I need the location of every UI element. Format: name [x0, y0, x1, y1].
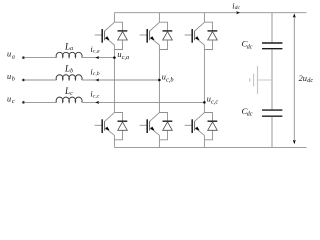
antiparallel diode of IGBT+diode upper switch leg c	[208, 31, 218, 40]
wire leg b top drop	[158, 13, 160, 23]
wire diode branch of IGBT+diode lower switch leg b	[159, 113, 167, 140]
node u_c,a	[113, 56, 116, 59]
wire top rail to C_dc upper	[271, 13, 273, 43]
wire diode branch of IGBT+diode upper switch leg b	[159, 22, 167, 49]
svg-text:u: u	[7, 72, 11, 81]
svg-text:c: c	[70, 91, 73, 97]
svg-text:u: u	[7, 94, 11, 103]
capacitor C_dc upper	[262, 43, 282, 49]
current arrow i_c,a	[95, 56, 99, 59]
svg-text:a: a	[70, 46, 73, 52]
wire L_c to node u_c,c	[82, 101, 205, 103]
svg-text:c,b: c,b	[93, 71, 100, 77]
IGBT of IGBT+diode upper switch leg b	[140, 22, 160, 45]
inductor L_a	[56, 52, 82, 57]
wire diode branch of IGBT+diode upper switch leg c	[204, 22, 212, 49]
wire leg b bottom drop	[158, 135, 160, 147]
voltage arrow 2u_dc line	[293, 17, 295, 142]
antiparallel diode of IGBT+diode lower switch leg b	[163, 121, 173, 130]
current arrow i_c,c	[95, 101, 99, 104]
wire leg a top drop	[113, 13, 115, 23]
node u_c,c	[203, 101, 206, 104]
svg-text:dc: dc	[247, 44, 253, 50]
svg-text:dc: dc	[307, 77, 313, 84]
current arrow i_dc	[236, 11, 240, 14]
svg-text:c,c: c,c	[211, 99, 218, 106]
wire L_b to node u_c,b	[82, 79, 160, 81]
svg-text:c,a: c,a	[122, 54, 130, 61]
antiparallel diode of IGBT+diode upper switch leg b	[163, 31, 173, 40]
IGBT of IGBT+diode lower switch leg a	[95, 113, 115, 136]
wire leg a bottom drop	[113, 135, 115, 147]
wire u_b to L_b	[24, 79, 57, 81]
source terminal u_b	[22, 79, 25, 82]
wire leg c midpoint vertical	[203, 45, 205, 113]
wire diode branch of IGBT+diode lower switch leg c	[204, 113, 212, 140]
wire u_c to L_c	[24, 101, 57, 103]
svg-text:b: b	[70, 69, 73, 75]
antiparallel diode of IGBT+diode lower switch leg c	[208, 121, 218, 130]
svg-text:c,b: c,b	[166, 76, 174, 83]
svg-text:u: u	[7, 50, 11, 59]
IGBT of IGBT+diode upper switch leg c	[185, 22, 205, 45]
voltage arrowhead up	[293, 13, 296, 17]
IGBT of IGBT+diode lower switch leg c	[185, 113, 205, 136]
bottom DC rail	[114, 146, 306, 148]
wire leg a midpoint vertical	[113, 45, 115, 113]
wire diode branch of IGBT+diode upper switch leg a	[114, 22, 122, 49]
svg-text:a: a	[12, 54, 15, 60]
svg-text:2u: 2u	[299, 74, 307, 83]
svg-text:c,a: c,a	[93, 49, 100, 55]
source terminal u_c	[22, 101, 25, 104]
svg-text:dc: dc	[247, 112, 253, 118]
wire C_dc lower to bottom rail	[271, 117, 273, 148]
wire diode branch of IGBT+diode lower switch leg a	[114, 113, 122, 140]
svg-text:b: b	[12, 77, 15, 83]
ground symbol	[250, 66, 258, 94]
midpoint ground wire	[258, 79, 273, 81]
wire leg b midpoint vertical	[158, 45, 160, 113]
capacitor C_dc lower	[262, 110, 282, 116]
inductor L_c	[56, 97, 82, 102]
wire u_a to L_a	[24, 57, 57, 59]
IGBT of IGBT+diode lower switch leg b	[140, 113, 160, 136]
svg-text:c,c: c,c	[93, 93, 100, 99]
wire L_a to node u_c,a	[82, 57, 115, 59]
antiparallel diode of IGBT+diode upper switch leg a	[118, 31, 128, 40]
antiparallel diode of IGBT+diode lower switch leg a	[118, 121, 128, 130]
source terminal u_a	[22, 56, 25, 59]
node u_c,b	[158, 79, 161, 82]
svg-text:c: c	[12, 99, 15, 105]
wire C_dc upper to midpoint	[271, 49, 273, 109]
IGBT of IGBT+diode upper switch leg a	[95, 22, 115, 45]
inductor L_b	[56, 75, 82, 80]
wire leg c bottom drop	[203, 135, 205, 147]
svg-text:dc: dc	[235, 5, 241, 11]
top DC rail	[114, 12, 306, 14]
current arrow i_c,b	[95, 78, 99, 81]
wire leg c top drop	[203, 13, 205, 23]
voltage arrowhead down	[293, 140, 296, 144]
